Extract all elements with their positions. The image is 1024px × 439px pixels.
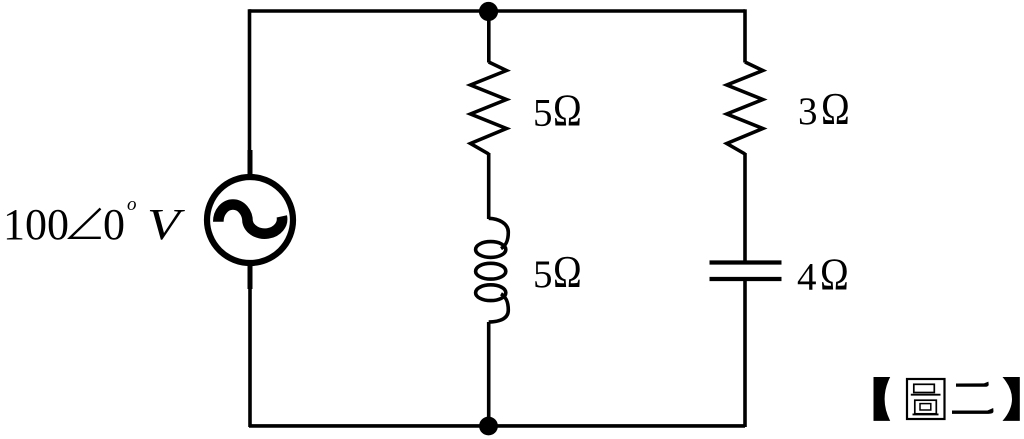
wire right branch bottom — [743, 279, 747, 427]
wire middle branch bottom — [487, 322, 491, 426]
resistor R1 (middle branch) — [471, 62, 507, 154]
wire right branch between R2 and C1 — [743, 153, 747, 262]
inductor L1 bottom hook — [489, 294, 509, 322]
svg-text:Ω: Ω — [820, 250, 849, 301]
source value label angle symbol — [70, 209, 101, 238]
figure label CJK 圖 inner bottom box — [915, 400, 937, 414]
svg-text:Ω: Ω — [553, 247, 582, 298]
figure label CJK 圖 bottom wide stroke — [913, 413, 939, 415]
figure label CJK 二 bottom stroke — [952, 408, 994, 414]
svg-text:5: 5 — [533, 92, 553, 135]
figure label CJK 圖 outer box — [907, 379, 945, 419]
resistor R2 (right branch) — [727, 62, 763, 154]
inductor L1 loop 3 — [476, 285, 506, 301]
figure label CJK 圖 middle horizontal stroke — [911, 394, 941, 396]
inductor L1 loop 1 — [476, 242, 506, 258]
figure label right lenticular bracket 】 — [1003, 377, 1020, 421]
svg-text:Ω: Ω — [553, 86, 582, 137]
svg-text:100: 100 — [3, 200, 69, 249]
wire middle branch between R1 and L1 — [487, 153, 491, 219]
capacitor C1 top plate — [710, 260, 782, 264]
node top junction — [479, 2, 498, 21]
inductor L1 top hook — [489, 218, 509, 248]
svg-text:o: o — [127, 194, 137, 215]
inductor L1 loop 2 — [476, 263, 506, 279]
svg-text:0: 0 — [103, 200, 125, 249]
ac source V1 sine wave — [218, 205, 282, 234]
svg-text:Ω: Ω — [821, 84, 850, 135]
wire right branch top — [743, 9, 747, 62]
figure label CJK 圖 inner top small box — [914, 384, 935, 392]
wire top horizontal — [249, 9, 745, 13]
figure label left lenticular bracket 【 — [874, 377, 891, 421]
ac source V1 circle — [207, 177, 293, 263]
wire bottom horizontal — [249, 424, 745, 428]
svg-text:5: 5 — [533, 253, 553, 296]
figure label CJK 二 top stroke — [956, 382, 989, 387]
figure label CJK 圖 innermost small box — [920, 404, 931, 410]
svg-text:3: 3 — [798, 90, 818, 133]
wire left vertical (bottom) — [248, 288, 252, 427]
svg-text:V: V — [147, 199, 185, 248]
ac source V1 lead bottom — [248, 263, 253, 289]
capacitor C1 bottom plate — [710, 277, 782, 281]
svg-text:4: 4 — [797, 256, 817, 299]
node bottom junction — [479, 417, 498, 436]
wire middle branch top — [487, 11, 491, 63]
ac source V1 lead top — [248, 150, 253, 177]
wire left vertical (top) — [248, 9, 252, 151]
